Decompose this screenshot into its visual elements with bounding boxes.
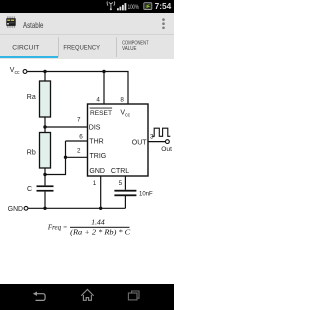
wire C bottom to ground rail (44, 192, 46, 209)
svg-text:6: 6 (79, 134, 83, 141)
node GND terminal (24, 206, 28, 210)
wire THR pin6 (66, 140, 88, 142)
node junction Ra top (43, 70, 46, 73)
navigation bar (0, 284, 174, 310)
overflow menu (162, 18, 165, 29)
wire Vcc rail top (27, 72, 128, 105)
junction dots (43, 70, 105, 210)
wire TRIG pin2 (66, 156, 88, 158)
node junction TRIG (64, 156, 67, 159)
waveform icon (152, 128, 170, 136)
active tab underline (0, 56, 58, 59)
home icon (81, 289, 93, 300)
circuit schematic (0, 0, 174, 284)
node junction pin1 ground (99, 207, 102, 210)
wire pin4 to rail (103, 72, 105, 105)
back icon (33, 292, 45, 301)
resistor Ra (40, 81, 51, 117)
formula fraction bar (70, 227, 130, 228)
svg-text:10nF: 10nF (139, 191, 153, 197)
node junction C ground (43, 207, 46, 210)
wire pin1 GND down (100, 176, 102, 208)
svg-text:CTRL: CTRL (111, 168, 129, 175)
svg-text:THR: THR (89, 139, 103, 146)
node junction Rb bottom (43, 173, 46, 176)
wire DIS pin7 (45, 126, 88, 128)
svg-text:4: 4 (96, 97, 100, 104)
wire OUT pin3 (148, 141, 166, 143)
tab bar (0, 35, 174, 59)
formula Freq (47, 218, 130, 237)
wire Rb bottom to C (44, 168, 46, 185)
svg-text:OUT: OUT (132, 139, 148, 146)
wire node Rb-C to THR/TRIG (45, 141, 66, 175)
svg-text:1: 1 (93, 180, 97, 187)
app icon: IC chip (6, 16, 15, 27)
node Vcc terminal (23, 70, 27, 74)
svg-text:8: 8 (120, 97, 124, 104)
node Out terminal (166, 140, 170, 144)
wire C2 bottom to rail (124, 195, 126, 209)
capacitor C2 10nF (114, 190, 136, 196)
svg-text:GND: GND (89, 168, 105, 175)
svg-text:7: 7 (77, 117, 81, 124)
wire Ra bottom to DIS node (44, 117, 46, 127)
svg-text:(Ra + 2 * Rb) * C: (Ra + 2 * Rb) * C (70, 229, 130, 237)
label RESET overline (90, 107, 113, 110)
labels (8, 67, 172, 213)
recent apps icon (128, 291, 139, 300)
node junction DIS (43, 125, 46, 128)
battery charging icon (144, 3, 152, 10)
svg-text:2: 2 (77, 147, 81, 154)
IC U1 555 timer body (88, 104, 149, 176)
wire pin5 CTRL down (124, 176, 126, 190)
network antenna icon (107, 1, 115, 10)
wire Ra top (44, 72, 46, 82)
svg-text:GND: GND (8, 206, 23, 213)
svg-text:DIS: DIS (89, 124, 101, 131)
svg-text:RESET: RESET (90, 110, 112, 117)
resistor Rb (40, 133, 51, 169)
status bar (0, 0, 174, 13)
svg-text:Vcc: Vcc (10, 67, 20, 76)
svg-text:3: 3 (150, 133, 154, 140)
capacitor C (37, 185, 54, 191)
svg-text:TRIG: TRIG (90, 153, 107, 160)
svg-text:Freq =: Freq = (47, 222, 67, 231)
svg-text:1.44: 1.44 (91, 218, 105, 227)
svg-text:Ra: Ra (27, 94, 36, 101)
wire ground rail (28, 207, 125, 209)
action bar (0, 13, 174, 35)
svg-text:C: C (27, 186, 32, 193)
svg-text:Rb: Rb (27, 149, 36, 156)
node junction pin4 rail (102, 70, 105, 73)
svg-text:5: 5 (119, 180, 123, 187)
signal bars (117, 3, 126, 10)
wire Rb top (44, 127, 46, 133)
svg-text:Out: Out (161, 146, 172, 153)
